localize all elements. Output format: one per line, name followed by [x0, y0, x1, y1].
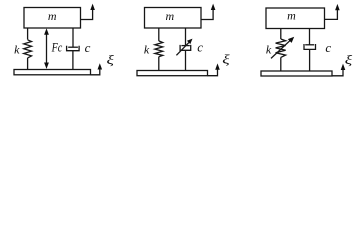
arrowhead up: force Fc (system 1): [44, 28, 49, 34]
svg-text:m: m: [48, 9, 57, 23]
damper cup c (system 1): [67, 46, 80, 51]
force Fc actuator arrow shaft (system 1): [46, 34, 48, 64]
svg-text:ξ: ξ: [222, 54, 230, 67]
wire: damper bottom rod (system 1): [72, 51, 74, 70]
variable damper diagonal arrow shaft (system 2): [176, 42, 189, 55]
base platform (system 3): [261, 71, 332, 76]
svg-text:k: k: [144, 43, 150, 57]
arrowhead: variable spring arrow (system 3): [288, 37, 294, 43]
svg-text:m: m: [287, 8, 296, 22]
spring k (system 2): [155, 41, 163, 57]
arrowhead: base excitation (system 1): [98, 63, 103, 69]
damper piston plate (system 3): [305, 44, 314, 46]
mass m (system 1): [24, 8, 81, 29]
wire: spring bottom rod (system 2): [158, 57, 160, 71]
wire: damper bottom rod (system 2): [185, 50, 187, 70]
svg-text:c: c: [325, 40, 331, 55]
damper piston plate (system 1): [68, 46, 78, 48]
wire: damper bottom rod (system 3): [309, 49, 311, 71]
damper piston plate (system 2): [181, 45, 189, 47]
spring k (system 3): [276, 39, 286, 57]
arrowhead: base excitation (system 3): [341, 64, 346, 70]
wire: mass motion arrow lead (system 3): [325, 10, 338, 20]
wire: mass motion arrow lead (system 2): [201, 9, 213, 19]
wire: spring bottom rod (system 1): [27, 58, 29, 70]
wire: damper top rod (system 2): [185, 28, 187, 46]
arrowhead: variable damper arrow (system 2): [187, 39, 193, 45]
svg-text:ξ: ξ: [345, 54, 353, 67]
wire: spring top rod (system 2): [158, 28, 160, 41]
base platform (system 1): [14, 70, 91, 75]
wire: damper top rod (system 3): [309, 29, 311, 45]
mass m (system 3): [266, 8, 325, 29]
base platform (system 2): [137, 71, 208, 76]
svg-text:c: c: [197, 40, 203, 55]
svg-text:k: k: [14, 43, 20, 57]
arrowhead: mass motion arrow (system 3): [335, 4, 340, 10]
svg-text:c: c: [85, 40, 91, 55]
arrowhead: base excitation (system 2): [215, 63, 220, 69]
variable spring diagonal arrow shaft (system 3): [271, 41, 290, 59]
wire: damper top rod (system 1): [72, 28, 74, 47]
wire: spring bottom rod (system 3): [280, 57, 282, 71]
arrowhead: mass motion arrow (system 1): [90, 4, 95, 10]
wire: base excitation arrow lead (system 1): [91, 69, 100, 75]
svg-text:m: m: [165, 9, 174, 23]
arrowhead down: force Fc (system 1): [44, 63, 49, 69]
wire: mass motion arrow lead (system 1): [81, 9, 93, 19]
svg-text:ξ: ξ: [107, 54, 115, 67]
arrowhead: mass motion arrow (system 2): [211, 4, 216, 10]
wire: spring top rod (system 1): [27, 28, 29, 40]
wire: base excitation arrow lead (system 2): [208, 69, 218, 76]
svg-text:k: k: [266, 43, 272, 57]
damper cup c (system 2): [180, 45, 191, 50]
svg-text:Fc: Fc: [51, 40, 63, 54]
mass m (system 2): [145, 8, 202, 29]
damper cup c (system 3): [304, 44, 316, 49]
wire: spring top rod (system 3): [280, 29, 282, 40]
wire: base excitation arrow lead (system 3): [332, 70, 343, 76]
spring k (system 1): [24, 40, 32, 58]
